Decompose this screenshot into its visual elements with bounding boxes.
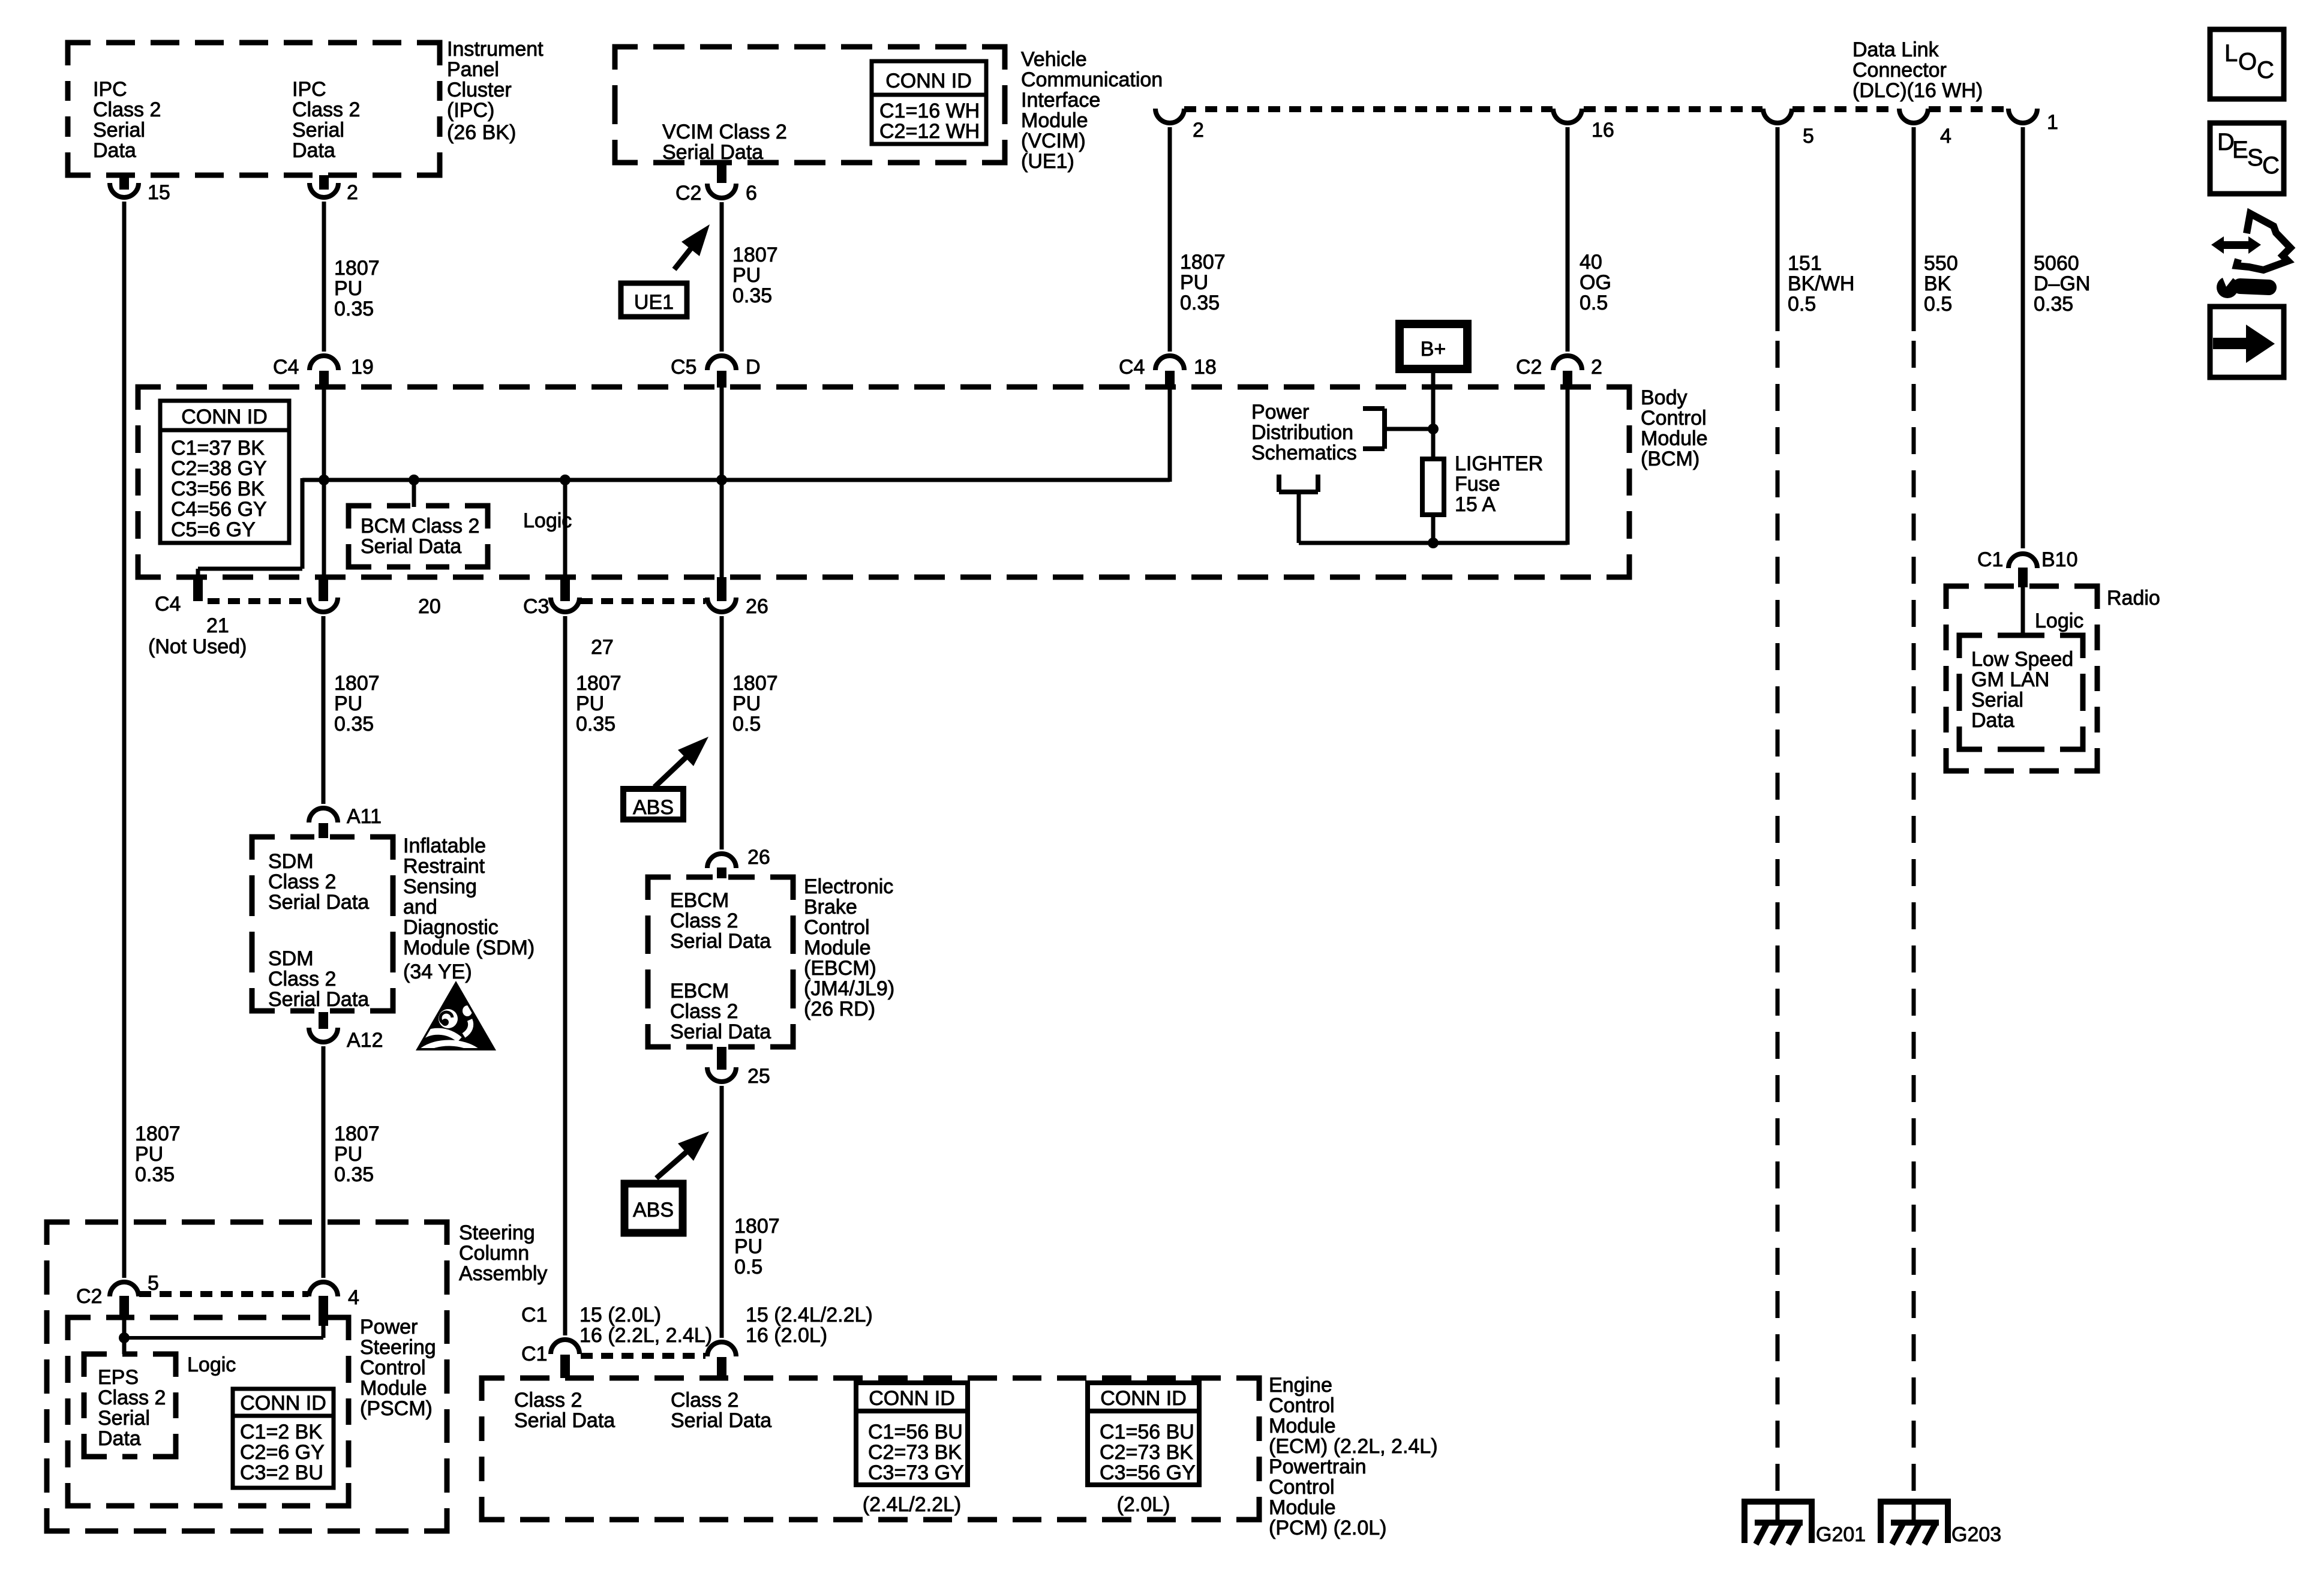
svg-text:C: C — [2262, 152, 2280, 179]
svg-text:Data: Data — [292, 139, 335, 162]
svg-text:C4=56 GY: C4=56 GY — [171, 498, 267, 521]
module box SDM — [252, 837, 393, 1011]
wire fuse bottom — [1431, 515, 1436, 543]
wire logic box drop — [412, 480, 416, 507]
CONN ID table BCM — [160, 401, 289, 543]
svg-text:EBCM: EBCM — [670, 980, 729, 1002]
svg-text:1: 1 — [2047, 111, 2058, 134]
svg-text:C2=12 WH: C2=12 WH — [879, 120, 980, 143]
svg-text:19: 19 — [351, 356, 374, 379]
svg-text:Module: Module — [360, 1377, 427, 1400]
svg-text:Serial Data: Serial Data — [662, 141, 763, 164]
svg-text:0.35: 0.35 — [1180, 292, 1220, 314]
svg-text:Serial: Serial — [98, 1407, 150, 1430]
svg-text:C2=73 BK: C2=73 BK — [1100, 1441, 1193, 1464]
junction node EPS — [119, 1332, 130, 1343]
svg-text:Control: Control — [1269, 1394, 1335, 1417]
svg-text:1807: 1807 — [734, 1215, 780, 1238]
wire BCM C2/2 down — [1566, 387, 1570, 545]
svg-text:C3=73 GY: C3=73 GY — [868, 1461, 964, 1484]
svg-text:Serial Data: Serial Data — [514, 1409, 615, 1432]
connector pin DLC 1 — [2008, 109, 2037, 123]
wire BCM C5/D down to pin 26 — [720, 387, 724, 577]
callout arrow ABS upper — [654, 755, 688, 787]
logic box Low Speed GM LAN Serial Data — [1959, 635, 2083, 749]
svg-text:UE1: UE1 — [634, 291, 674, 314]
svg-text:and: and — [403, 896, 437, 918]
svg-text:SDM: SDM — [268, 947, 314, 970]
wire B+ to fuse — [1431, 369, 1436, 459]
svg-text:IPC: IPC — [292, 78, 326, 101]
wire pin4 elbow to EPS — [322, 1326, 326, 1338]
callout box UE1 — [621, 283, 687, 317]
svg-text:2: 2 — [1193, 119, 1204, 142]
svg-text:1807: 1807 — [732, 244, 778, 266]
svg-text:BK/WH: BK/WH — [1788, 272, 1854, 295]
svg-text:Instrument: Instrument — [447, 38, 544, 61]
connector face line C2 — [139, 1291, 308, 1297]
callout box ABS lower — [624, 1184, 683, 1233]
connector pin DLC 16 — [1553, 109, 1582, 123]
CONN ID table PCM 2.0L — [1088, 1383, 1199, 1485]
connector pin DLC 5 — [1763, 109, 1792, 123]
svg-text:Serial Data: Serial Data — [268, 988, 369, 1011]
wire C3 drop — [563, 480, 568, 577]
connector pin BCM C4/21 (Not Used) — [193, 577, 203, 601]
svg-text:1807: 1807 — [334, 257, 380, 280]
CONN ID table ECM 2.4L/2.2L — [856, 1383, 968, 1485]
svg-text:(PSCM): (PSCM) — [360, 1397, 433, 1420]
svg-text:15 A: 15 A — [1455, 493, 1496, 516]
svg-text:C2=73 BK: C2=73 BK — [868, 1441, 962, 1464]
svg-text:Logic: Logic — [2035, 610, 2083, 632]
svg-text:SDM: SDM — [268, 850, 314, 873]
svg-text:C5: C5 — [671, 356, 696, 379]
svg-text:C1=56 BU: C1=56 BU — [868, 1421, 963, 1443]
svg-text:0.35: 0.35 — [334, 713, 374, 736]
svg-text:B10: B10 — [2041, 548, 2078, 571]
wire pin5 down to EPS logic — [122, 1317, 127, 1354]
wire bus elbow to C4/21 — [301, 478, 305, 569]
svg-text:Data: Data — [98, 1427, 141, 1450]
svg-text:Electronic: Electronic — [804, 875, 893, 898]
wire BCM26 to EBCM 26 — [720, 616, 724, 849]
svg-text:0.5: 0.5 — [1788, 293, 1816, 316]
svg-text:Control: Control — [1269, 1476, 1335, 1499]
icon box forward arrow — [2210, 307, 2284, 377]
connector face line C1 — [581, 1353, 705, 1359]
svg-text:Column: Column — [459, 1242, 529, 1265]
svg-text:(2.0L): (2.0L) — [1117, 1493, 1170, 1516]
connector pin BCM 26 — [717, 577, 726, 601]
svg-text:C3=56 BK: C3=56 BK — [171, 478, 265, 500]
logic box BCM Class 2 Serial Data — [349, 506, 488, 567]
svg-text:PU: PU — [732, 692, 761, 715]
svg-text:Class 2: Class 2 — [514, 1389, 582, 1412]
svg-text:ABS: ABS — [633, 796, 674, 819]
svg-text:C1: C1 — [1977, 548, 2003, 571]
svg-text:Serial Data: Serial Data — [670, 1020, 771, 1043]
svg-text:0.35: 0.35 — [135, 1163, 175, 1186]
wire DLC2 to BCM C4/18 — [1168, 127, 1172, 352]
junction node C5 drop — [716, 475, 727, 485]
module box PSCM — [68, 1317, 349, 1506]
svg-text:6: 6 — [746, 182, 757, 205]
svg-text:5060: 5060 — [2034, 252, 2079, 275]
logic box EPS Class 2 Serial Data — [84, 1354, 176, 1457]
svg-text:Control: Control — [804, 916, 870, 939]
callout box ABS upper — [623, 789, 683, 819]
junction node logic drop — [409, 475, 419, 485]
svg-text:Control: Control — [1641, 407, 1707, 430]
bracket power distribution — [1363, 406, 1385, 411]
svg-text:Diagnostic: Diagnostic — [403, 916, 499, 939]
svg-text:C2: C2 — [1516, 356, 1542, 379]
svg-text:Serial Data: Serial Data — [361, 535, 461, 558]
svg-text:C1=2 BK: C1=2 BK — [240, 1421, 322, 1443]
svg-text:Class 2: Class 2 — [671, 1389, 738, 1412]
connector pin BCM 20 — [319, 577, 328, 601]
svg-text:0.35: 0.35 — [334, 1163, 374, 1186]
svg-text:C1=37 BK: C1=37 BK — [171, 437, 265, 460]
callout arrow UE1 — [674, 246, 693, 269]
svg-text:PU: PU — [334, 1143, 362, 1166]
svg-text:(DLC)(16 WH): (DLC)(16 WH) — [1852, 79, 1983, 102]
svg-text:(ECM) (2.2L, 2.4L): (ECM) (2.2L, 2.4L) — [1269, 1435, 1438, 1458]
svg-text:Class 2: Class 2 — [98, 1386, 166, 1409]
svg-text:0.5: 0.5 — [734, 1256, 762, 1278]
svg-text:Restraint: Restraint — [403, 855, 485, 878]
wire EBCM25 to ECM C1 right — [720, 1086, 724, 1338]
wire BCM C3/27 to ECM C1 left — [563, 616, 568, 1335]
svg-text:PU: PU — [334, 277, 362, 300]
svg-text:1807: 1807 — [135, 1122, 181, 1145]
svg-text:40: 40 — [1580, 251, 1602, 274]
svg-text:O: O — [2238, 49, 2257, 75]
svg-text:25: 25 — [747, 1065, 770, 1088]
svg-text:(VCIM): (VCIM) — [1021, 130, 1086, 152]
svg-text:LIGHTER: LIGHTER — [1455, 452, 1543, 475]
svg-text:4: 4 — [348, 1286, 359, 1309]
svg-text:B+: B+ — [1421, 338, 1446, 361]
svg-text:C3=56 GY: C3=56 GY — [1100, 1461, 1196, 1484]
svg-text:15: 15 — [148, 181, 170, 204]
svg-text:15 (2.0L): 15 (2.0L) — [580, 1304, 661, 1326]
svg-text:C2=38 GY: C2=38 GY — [171, 457, 267, 480]
svg-text:(26 BK): (26 BK) — [447, 121, 516, 144]
connector pin DLC 2 — [1155, 109, 1184, 123]
svg-text:4: 4 — [1940, 125, 1951, 148]
icon box LOC — [2210, 29, 2284, 99]
icon electrical diagnostics (arrow + wrench) — [2211, 214, 2290, 298]
wire BCM internal bus — [302, 478, 1170, 482]
svg-text:L: L — [2224, 40, 2238, 67]
svg-text:0.5: 0.5 — [1580, 292, 1608, 314]
junction node at pin19 wire — [319, 475, 329, 485]
CONN ID table PSCM — [233, 1389, 334, 1488]
svg-text:18: 18 — [1194, 356, 1217, 379]
svg-text:0.35: 0.35 — [576, 713, 615, 736]
svg-text:C3=2 BU: C3=2 BU — [240, 1461, 323, 1484]
svg-text:(2.4L/2.2L): (2.4L/2.2L) — [863, 1493, 961, 1516]
svg-text:26: 26 — [746, 595, 768, 618]
connector pin ECM C1 right — [707, 1342, 736, 1356]
svg-text:A11: A11 — [347, 805, 382, 828]
svg-text:PU: PU — [576, 692, 604, 715]
svg-text:E: E — [2232, 137, 2248, 163]
svg-text:EBCM: EBCM — [670, 889, 729, 912]
svg-text:Control: Control — [360, 1356, 426, 1379]
svg-text:PU: PU — [334, 692, 362, 715]
svg-text:16 (2.0L): 16 (2.0L) — [746, 1324, 827, 1347]
wire IPC pin15 to PSCM C2/5 — [122, 202, 127, 1278]
svg-text:CONN ID: CONN ID — [885, 70, 972, 92]
svg-text:2: 2 — [347, 181, 358, 204]
svg-text:0.35: 0.35 — [334, 298, 374, 320]
svg-text:OG: OG — [1580, 271, 1611, 294]
svg-text:Class 2: Class 2 — [93, 98, 161, 121]
svg-text:Class 2: Class 2 — [670, 1000, 738, 1023]
module box EBCM — [648, 877, 793, 1047]
svg-text:Module (SDM): Module (SDM) — [403, 936, 535, 959]
svg-text:A12: A12 — [347, 1029, 383, 1052]
svg-text:(IPC): (IPC) — [447, 99, 494, 122]
connector pin ECM C1 left — [551, 1340, 580, 1354]
connector pin IPC 2 — [319, 175, 329, 190]
fuse LIGHTER 15A — [1422, 459, 1444, 515]
svg-text:0.35: 0.35 — [732, 284, 772, 307]
connector pin SDM A11 — [309, 808, 338, 822]
CONN ID table VCIM — [872, 61, 986, 144]
wire IPC pin2 to BCM C4/19 — [322, 202, 326, 352]
svg-text:Class 2: Class 2 — [268, 968, 336, 990]
svg-text:PU: PU — [135, 1143, 163, 1166]
module box ECM/PCM — [482, 1378, 1259, 1520]
svg-text:Radio: Radio — [2107, 587, 2160, 610]
svg-text:Serial Data: Serial Data — [670, 930, 771, 953]
svg-text:Data: Data — [1971, 709, 2014, 732]
svg-text:Assembly: Assembly — [459, 1262, 547, 1285]
svg-text:(PCM) (2.0L): (PCM) (2.0L) — [1269, 1517, 1386, 1539]
junction node power distribution tap — [1428, 424, 1439, 434]
module box Radio — [1946, 586, 2097, 771]
svg-text:C3: C3 — [523, 595, 549, 618]
svg-text:Sensing: Sensing — [403, 875, 477, 898]
svg-text:C1=56 BU: C1=56 BU — [1100, 1421, 1194, 1443]
svg-text:Power: Power — [1251, 401, 1309, 424]
svg-text:C1: C1 — [521, 1343, 547, 1365]
svg-text:1807: 1807 — [1180, 251, 1226, 274]
icon box DESC — [2210, 123, 2284, 194]
connector pin IPC 15 — [119, 175, 129, 190]
svg-text:Vehicle: Vehicle — [1021, 48, 1087, 71]
svg-text:Module: Module — [804, 936, 871, 959]
svg-text:Module: Module — [1641, 427, 1708, 450]
connector face line C3 — [581, 598, 705, 604]
svg-text:Communication: Communication — [1021, 68, 1163, 91]
svg-text:Serial: Serial — [93, 119, 145, 142]
svg-text:0.35: 0.35 — [2034, 293, 2073, 316]
svg-text:(Not Used): (Not Used) — [148, 635, 247, 658]
svg-text:C: C — [2257, 57, 2274, 83]
wire SDM A12 to PSCM C2/4 — [322, 1046, 326, 1278]
svg-text:1807: 1807 — [576, 672, 621, 695]
svg-text:Serial Data: Serial Data — [671, 1409, 771, 1432]
module box IPC (Instrument Panel Cluster) — [68, 43, 440, 175]
svg-text:Engine: Engine — [1269, 1374, 1332, 1397]
svg-text:26: 26 — [747, 846, 770, 869]
svg-text:16: 16 — [1592, 119, 1614, 142]
svg-text:Inflatable: Inflatable — [403, 834, 486, 857]
svg-text:BCM Class 2: BCM Class 2 — [361, 515, 479, 538]
wire BCM20 to SDM A11 — [322, 616, 326, 804]
svg-text:CONN ID: CONN ID — [869, 1387, 955, 1410]
svg-text:550: 550 — [1924, 252, 1958, 275]
svg-text:EPS: EPS — [98, 1366, 139, 1389]
svg-text:Module: Module — [1269, 1496, 1336, 1519]
svg-text:0.5: 0.5 — [732, 713, 761, 736]
svg-text:C4: C4 — [273, 356, 299, 379]
svg-text:C2=6 GY: C2=6 GY — [240, 1441, 325, 1464]
svg-text:Connector: Connector — [1852, 59, 1947, 82]
connector pin BCM C3/27 — [560, 577, 570, 601]
svg-text:Body: Body — [1641, 386, 1688, 409]
power feed B+ box — [1400, 324, 1467, 369]
connector face line DLC — [1184, 106, 1553, 112]
svg-text:Class 2: Class 2 — [670, 909, 738, 932]
svg-text:C2: C2 — [76, 1285, 102, 1308]
svg-text:(BCM): (BCM) — [1641, 448, 1700, 470]
connector pin DLC 4 — [1899, 109, 1928, 123]
connector pin EBCM 25 — [717, 1047, 726, 1070]
svg-text:Serial: Serial — [1971, 689, 2023, 712]
airbag warning triangle icon — [416, 981, 496, 1051]
svg-text:CONN ID: CONN ID — [240, 1392, 326, 1415]
svg-text:BK: BK — [1924, 272, 1951, 295]
svg-text:15 (2.4L/2.2L): 15 (2.4L/2.2L) — [746, 1304, 873, 1326]
svg-text:Data: Data — [93, 139, 136, 162]
junction node C3 drop — [560, 475, 571, 485]
svg-text:Class 2: Class 2 — [268, 870, 336, 893]
svg-text:Panel: Panel — [447, 58, 499, 81]
svg-text:5: 5 — [1803, 125, 1814, 148]
svg-text:0.5: 0.5 — [1924, 293, 1952, 316]
svg-text:Serial: Serial — [292, 119, 344, 142]
svg-text:G201: G201 — [1816, 1523, 1866, 1546]
svg-text:Module: Module — [1021, 109, 1088, 132]
svg-text:S: S — [2247, 145, 2263, 171]
svg-text:(34 YE): (34 YE) — [403, 960, 472, 983]
svg-text:Fuse: Fuse — [1455, 473, 1500, 496]
svg-text:CONN ID: CONN ID — [1100, 1387, 1187, 1410]
connector pin SDM A12 — [319, 1012, 328, 1029]
svg-text:(JM4/JL9): (JM4/JL9) — [804, 977, 894, 1000]
wire DLC1 to Radio C1/B10 — [2021, 127, 2025, 548]
svg-text:C4: C4 — [155, 593, 181, 616]
module box BCM (Body Control Module) — [138, 387, 1629, 577]
wire VCIM C2/6 to BCM C5/D — [720, 202, 724, 352]
svg-text:Data Link: Data Link — [1852, 38, 1939, 61]
svg-text:1807: 1807 — [334, 672, 380, 695]
module box VCIM — [615, 47, 1005, 163]
callout arrow ABS lower — [656, 1150, 689, 1178]
svg-text:(UE1): (UE1) — [1021, 150, 1074, 173]
svg-text:PU: PU — [1180, 271, 1208, 294]
svg-text:1807: 1807 — [334, 1122, 380, 1145]
svg-text:(EBCM): (EBCM) — [804, 957, 876, 980]
svg-text:Schematics: Schematics — [1251, 442, 1357, 464]
svg-text:21: 21 — [206, 614, 229, 637]
svg-text:D–GN: D–GN — [2034, 272, 2090, 295]
svg-text:Serial Data: Serial Data — [268, 891, 369, 914]
svg-text:CONN ID: CONN ID — [181, 406, 268, 428]
svg-text:PU: PU — [734, 1235, 762, 1258]
ground G201 — [1744, 1499, 1812, 1505]
svg-text:Cluster: Cluster — [447, 79, 512, 101]
wire lighter bus — [1299, 541, 1568, 545]
svg-text:Brake: Brake — [804, 896, 857, 918]
svg-text:Logic: Logic — [187, 1353, 236, 1376]
connector pin EBCM 26 — [707, 854, 736, 868]
connector pin PSCM C2/4 — [309, 1282, 338, 1296]
svg-text:2: 2 — [1591, 356, 1602, 379]
svg-text:C4: C4 — [1119, 356, 1145, 379]
svg-text:Module: Module — [1269, 1415, 1336, 1437]
svg-text:C1: C1 — [521, 1304, 547, 1326]
svg-text:Interface: Interface — [1021, 89, 1100, 112]
wire radio internal — [2021, 586, 2025, 635]
svg-text:C1=16 WH: C1=16 WH — [879, 100, 980, 122]
svg-text:Low Speed: Low Speed — [1971, 648, 2073, 671]
wire BCM C4/18 down to bus — [1168, 387, 1172, 482]
svg-text:ABS: ABS — [633, 1199, 674, 1221]
svg-text:GM LAN: GM LAN — [1971, 668, 2049, 691]
connector pin VCIM C2/6 — [717, 163, 726, 183]
svg-text:IPC: IPC — [93, 78, 127, 101]
ground G203 — [1881, 1499, 1948, 1505]
svg-text:16 (2.2L, 2.4L): 16 (2.2L, 2.4L) — [580, 1324, 712, 1347]
svg-text:Class 2: Class 2 — [292, 98, 360, 121]
svg-text:27: 27 — [591, 636, 614, 659]
svg-text:Powertrain: Powertrain — [1269, 1455, 1367, 1478]
svg-text:1807: 1807 — [732, 672, 778, 695]
svg-text:151: 151 — [1788, 252, 1822, 275]
wire DLC16 to BCM C2/2 — [1566, 127, 1570, 352]
svg-text:Power: Power — [360, 1316, 418, 1338]
svg-text:Steering: Steering — [360, 1336, 436, 1359]
svg-text:Distribution: Distribution — [1251, 421, 1353, 444]
module box Steering Column Assembly — [47, 1222, 447, 1531]
bracket to lighter feed — [1277, 475, 1281, 492]
svg-text:G203: G203 — [1951, 1523, 2001, 1546]
svg-text:20: 20 — [418, 595, 441, 618]
svg-text:C5=6 GY: C5=6 GY — [171, 518, 256, 541]
svg-text:D: D — [746, 356, 761, 379]
junction node fuse bottom — [1428, 538, 1439, 548]
svg-text:C2: C2 — [675, 182, 701, 205]
svg-text:(26 RD): (26 RD) — [804, 998, 875, 1020]
svg-text:Steering: Steering — [459, 1221, 535, 1244]
connector face line C4 — [208, 598, 307, 604]
svg-text:PU: PU — [732, 264, 761, 287]
svg-text:VCIM Class 2: VCIM Class 2 — [662, 121, 787, 143]
wire DLC4 to G203 (solid then dashed) — [1912, 127, 1916, 331]
wire DLC5 to G201 (solid then dashed) — [1776, 127, 1780, 331]
wire BCM C4/19 down through bus to pin 20 — [322, 387, 326, 577]
